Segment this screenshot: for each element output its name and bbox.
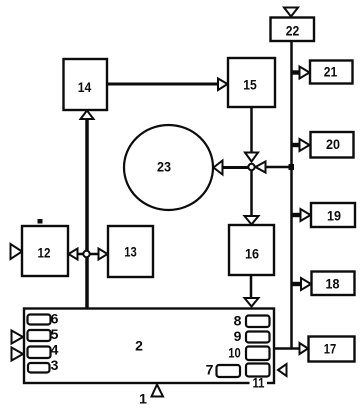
svg-text:13: 13 <box>124 244 137 260</box>
dot above 12 <box>38 219 43 224</box>
small box 4 <box>28 342 59 359</box>
small box 8 <box>234 313 270 329</box>
wire junction to circle 23 <box>222 166 249 169</box>
svg-text:2: 2 <box>135 338 143 354</box>
branch stub to 19 <box>292 213 301 217</box>
svg-text:8: 8 <box>234 313 242 329</box>
block 13 <box>108 226 153 277</box>
wire bus to junction <box>265 166 292 169</box>
circle 23 <box>124 125 213 210</box>
thick wire from 14 down to 2 <box>85 119 89 308</box>
junction tick on bus <box>289 164 295 170</box>
svg-text:9: 9 <box>234 328 242 344</box>
wire junction down to 16 <box>250 171 253 218</box>
svg-text:5: 5 <box>51 326 59 342</box>
wire 16 down to 2 <box>250 275 253 299</box>
small box 3 <box>28 357 59 373</box>
svg-text:4: 4 <box>51 342 59 358</box>
block 20 <box>311 132 354 158</box>
svg-text:20: 20 <box>326 136 340 152</box>
branch stub to 20 <box>292 143 300 147</box>
svg-text:15: 15 <box>243 77 257 93</box>
small box 7 <box>206 362 240 378</box>
svg-text:1: 1 <box>139 391 147 407</box>
input triangle upper-left of 2 <box>12 331 24 344</box>
arrowhead left at junction <box>256 162 266 173</box>
svg-text:23: 23 <box>157 159 171 175</box>
small box 10 <box>228 345 269 361</box>
svg-text:16: 16 <box>245 246 259 262</box>
svg-text:12: 12 <box>38 245 51 261</box>
svg-text:10: 10 <box>228 345 241 361</box>
svg-text:6: 6 <box>51 311 59 327</box>
wire 14 to 15 <box>108 83 219 86</box>
block 22 <box>271 18 315 42</box>
branch stub to 21 <box>292 70 300 74</box>
svg-text:3: 3 <box>51 357 59 373</box>
small box 9 <box>234 328 270 344</box>
arrowhead right into 13 <box>99 249 108 260</box>
small box 11 <box>246 364 270 391</box>
junction node circle <box>248 164 254 170</box>
wire 12 to junction <box>77 253 84 256</box>
arrowhead into 20 <box>300 139 310 151</box>
input triangle into 12 <box>11 244 23 259</box>
arrowhead into 17 <box>300 343 309 354</box>
arrowhead into 23 <box>214 161 223 175</box>
block 14 <box>64 59 108 110</box>
svg-text:17: 17 <box>324 341 337 357</box>
arrowhead into 15 <box>218 79 228 91</box>
arrowhead left into 12 <box>69 249 78 260</box>
arrowhead down into junction <box>245 153 258 162</box>
svg-text:22: 22 <box>286 23 300 39</box>
block 2 <box>24 309 274 384</box>
wire 15 down to junction <box>250 107 253 153</box>
bus wire from 22 down <box>290 41 293 349</box>
block 19 <box>311 203 355 227</box>
wire from block 2 to 17 <box>274 347 300 350</box>
svg-text:7: 7 <box>206 362 214 378</box>
block 21 <box>310 61 353 84</box>
arrowhead up into 14 <box>81 111 94 120</box>
svg-text:19: 19 <box>327 208 341 224</box>
svg-text:11: 11 <box>253 375 265 391</box>
block 16 <box>229 225 274 275</box>
antenna triangle above 22 <box>284 8 298 17</box>
svg-text:14: 14 <box>78 79 92 95</box>
block 18 <box>312 272 355 296</box>
junction node circle on thick wire <box>83 251 89 257</box>
input triangle lower-left of 2 <box>12 348 24 361</box>
block 12 <box>22 226 68 276</box>
block 15 <box>228 58 275 107</box>
small box 5 <box>28 326 59 342</box>
input triangle right of 2 near 11 <box>278 364 287 376</box>
arrowhead into 2 from 16 <box>245 298 259 307</box>
triangle node 1 below 2 <box>152 385 164 397</box>
small box 6 <box>28 311 59 327</box>
arrowhead into 21 <box>300 67 310 79</box>
arrowhead into 19 <box>301 209 311 221</box>
branch stub to 18 <box>292 282 301 286</box>
wire junction to 13 <box>89 253 99 256</box>
arrowhead into 18 <box>301 278 311 290</box>
svg-text:18: 18 <box>326 276 340 292</box>
arrowhead into 16 <box>245 216 259 225</box>
svg-text:21: 21 <box>324 64 338 80</box>
block 17 <box>309 337 355 362</box>
